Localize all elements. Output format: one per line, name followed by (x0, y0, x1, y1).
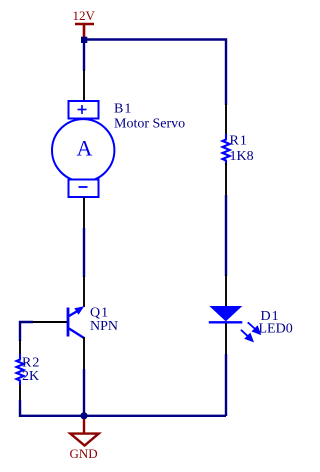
resistor R2 body (17, 354, 24, 385)
node junction top (81, 37, 87, 43)
pin motor + (83, 70, 85, 102)
pin R2 bottom (19, 385, 21, 401)
motor plus mark (78, 105, 87, 114)
transistor Q1 body (68, 308, 84, 339)
transistor Q1 emitter arrow head (74, 306, 84, 315)
wire base to R2 (20, 322, 33, 341)
resistor R1 body (223, 134, 230, 165)
svg-text:1K8: 1K8 (230, 149, 254, 164)
svg-text:NPN: NPN (90, 319, 118, 334)
wire bottom rail (20, 400, 226, 416)
pin R2 top (19, 340, 21, 356)
pin Q1 base (32, 321, 67, 323)
wire node to motor (83, 42, 85, 71)
wire LED to bottom rail (225, 354, 227, 416)
wire top rail to right branch (84, 40, 226, 106)
pin D1 anode (225, 275, 227, 307)
LED D1 emission arrows (241, 322, 260, 341)
node junction bottom (80, 412, 87, 419)
power symbol 12V (75, 24, 94, 39)
svg-text:LED0: LED0 (259, 322, 293, 337)
pin R1 top (225, 104, 227, 135)
svg-text:2K: 2K (22, 369, 39, 384)
wire R1 to LED (225, 195, 227, 276)
wire motor to transistor (83, 228, 85, 277)
pin motor - (83, 197, 85, 228)
ground symbol GND (70, 419, 98, 446)
svg-text:B1: B1 (114, 102, 132, 117)
svg-text:A: A (76, 135, 92, 160)
svg-text:Motor Servo: Motor Servo (114, 116, 185, 131)
motor B1 body (52, 101, 114, 197)
svg-text:12V: 12V (73, 8, 96, 23)
svg-text:R1: R1 (230, 134, 248, 149)
wire emitter to ground rail (83, 369, 85, 416)
pin Q1 emitter (83, 337, 85, 369)
pin R1 bottom (225, 163, 227, 196)
LED D1 body (209, 306, 243, 322)
motor minus mark (79, 186, 88, 188)
pin D1 cathode (225, 323, 227, 355)
svg-text:GND: GND (70, 446, 98, 461)
pin Q1 collector (83, 276, 85, 307)
